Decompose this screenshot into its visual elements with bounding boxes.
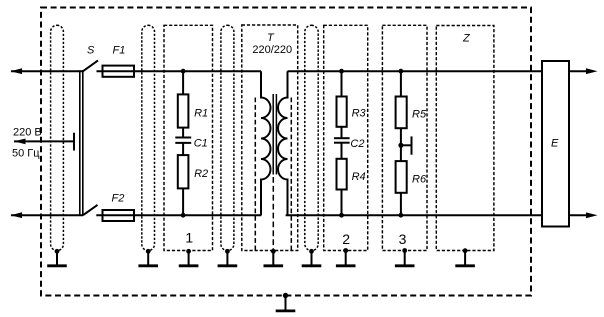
svg-text:R3: R3 bbox=[352, 108, 367, 120]
svg-text:R1: R1 bbox=[194, 107, 208, 119]
svg-text:C1: C1 bbox=[194, 138, 208, 150]
svg-text:50 Гц: 50 Гц bbox=[12, 148, 40, 160]
svg-text:1: 1 bbox=[185, 229, 193, 245]
svg-text:2: 2 bbox=[342, 231, 350, 247]
svg-text:220 В: 220 В bbox=[13, 127, 42, 139]
svg-text:F2: F2 bbox=[112, 192, 125, 204]
svg-text:S: S bbox=[87, 45, 95, 57]
svg-text:3: 3 bbox=[399, 231, 407, 247]
svg-text:Z: Z bbox=[462, 33, 471, 45]
svg-text:C2: C2 bbox=[350, 138, 364, 150]
svg-text:R6: R6 bbox=[412, 173, 427, 185]
svg-text:R5: R5 bbox=[412, 108, 427, 120]
svg-text:R4: R4 bbox=[352, 171, 366, 183]
svg-text:R2: R2 bbox=[194, 168, 208, 180]
svg-text:F1: F1 bbox=[113, 45, 126, 57]
svg-text:220/220: 220/220 bbox=[252, 44, 292, 56]
svg-text:E: E bbox=[551, 138, 559, 150]
